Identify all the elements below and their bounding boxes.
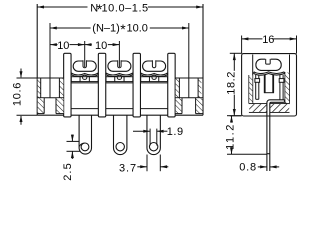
pole 3 center extension line [118,41,120,67]
svg-text:3.7: 3.7 [119,162,137,174]
dimension 16 (width) [241,36,243,54]
dimension 10.6 (body height) [17,77,38,79]
dimension 0.8 (pin thickness) [258,166,267,168]
pole 1 center extension line [49,23,51,98]
clamp left bar [255,75,257,100]
pole 5 center extension line [188,23,190,98]
floor hatch band [249,103,267,105]
body bottom line [37,114,63,116]
svg-text:10: 10 [57,40,69,52]
dimension 10 (pole1-pole2) [50,44,58,46]
pole 2 center extension line [84,41,86,67]
barrier wall B1 [64,53,71,117]
dimension 11.2 (pin length) [227,115,242,117]
right end section top edge [175,77,203,79]
right end lower hatch blocks [196,98,203,113]
svg-text:2.5: 2.5 [62,162,74,181]
screw S3 [141,59,168,83]
svg-text:11.2: 11.2 [224,123,236,150]
recess mouth edges [252,55,254,104]
clamp right bar [279,75,281,100]
left end section top edge [37,77,63,79]
svg-text:(N–1): (N–1) [92,23,120,35]
svg-text:10: 10 [95,40,107,52]
screw S1 [71,59,98,83]
arrowheads [37,6,44,9]
dimension N*10.0-1.5 [37,6,87,8]
left end lower hatch blocks [38,98,45,113]
svg-text:18.2: 18.2 [226,71,238,95]
svg-text:10.6: 10.6 [11,82,23,106]
dimension 10 (pole2-pole3) [85,44,92,46]
right end wall hatch [198,79,201,98]
body right edge + extension line [202,4,204,115]
pin tip [267,153,270,155]
right end cavity floor [175,97,203,99]
dimension 18.2 (height) [230,52,242,54]
screw S2 [106,59,133,83]
svg-text:1.9: 1.9 [167,126,184,138]
band top line between barriers [71,108,98,110]
pin P4 front [147,115,160,154]
svg-text:16: 16 [262,34,274,46]
dimension 1.9 (pin hole) [149,129,151,146]
left end cavity floor [37,97,63,99]
left wall hatch [248,75,250,104]
side screw slot notch [266,59,271,64]
side spring washer [254,72,284,74]
body left edge + extension line [36,4,38,115]
clamp tabs [255,79,260,83]
dimension (N-1)*10.0 [50,27,91,29]
side screw head [256,59,281,70]
side body outline [242,54,297,116]
dimension 3.7 (pin width) [146,155,148,172]
svg-text:*: * [120,21,126,37]
screw shank [264,75,266,93]
svg-text:10.0–1.5: 10.0–1.5 [102,2,149,14]
barrier wall B4 [168,53,175,117]
metal strip and solder pin (side) [267,100,285,171]
svg-text:10.0: 10.0 [127,23,148,35]
barrier wall B3 [133,53,140,117]
pin P3 front [114,115,127,154]
pin P2 curled (section) [79,115,91,154]
right wall hatch [284,72,286,104]
barrier wall B2 [98,53,105,117]
svg-text:0.8: 0.8 [239,161,257,173]
dimension 2.5 (curl) [67,140,80,142]
left end wall hatch [38,79,41,98]
